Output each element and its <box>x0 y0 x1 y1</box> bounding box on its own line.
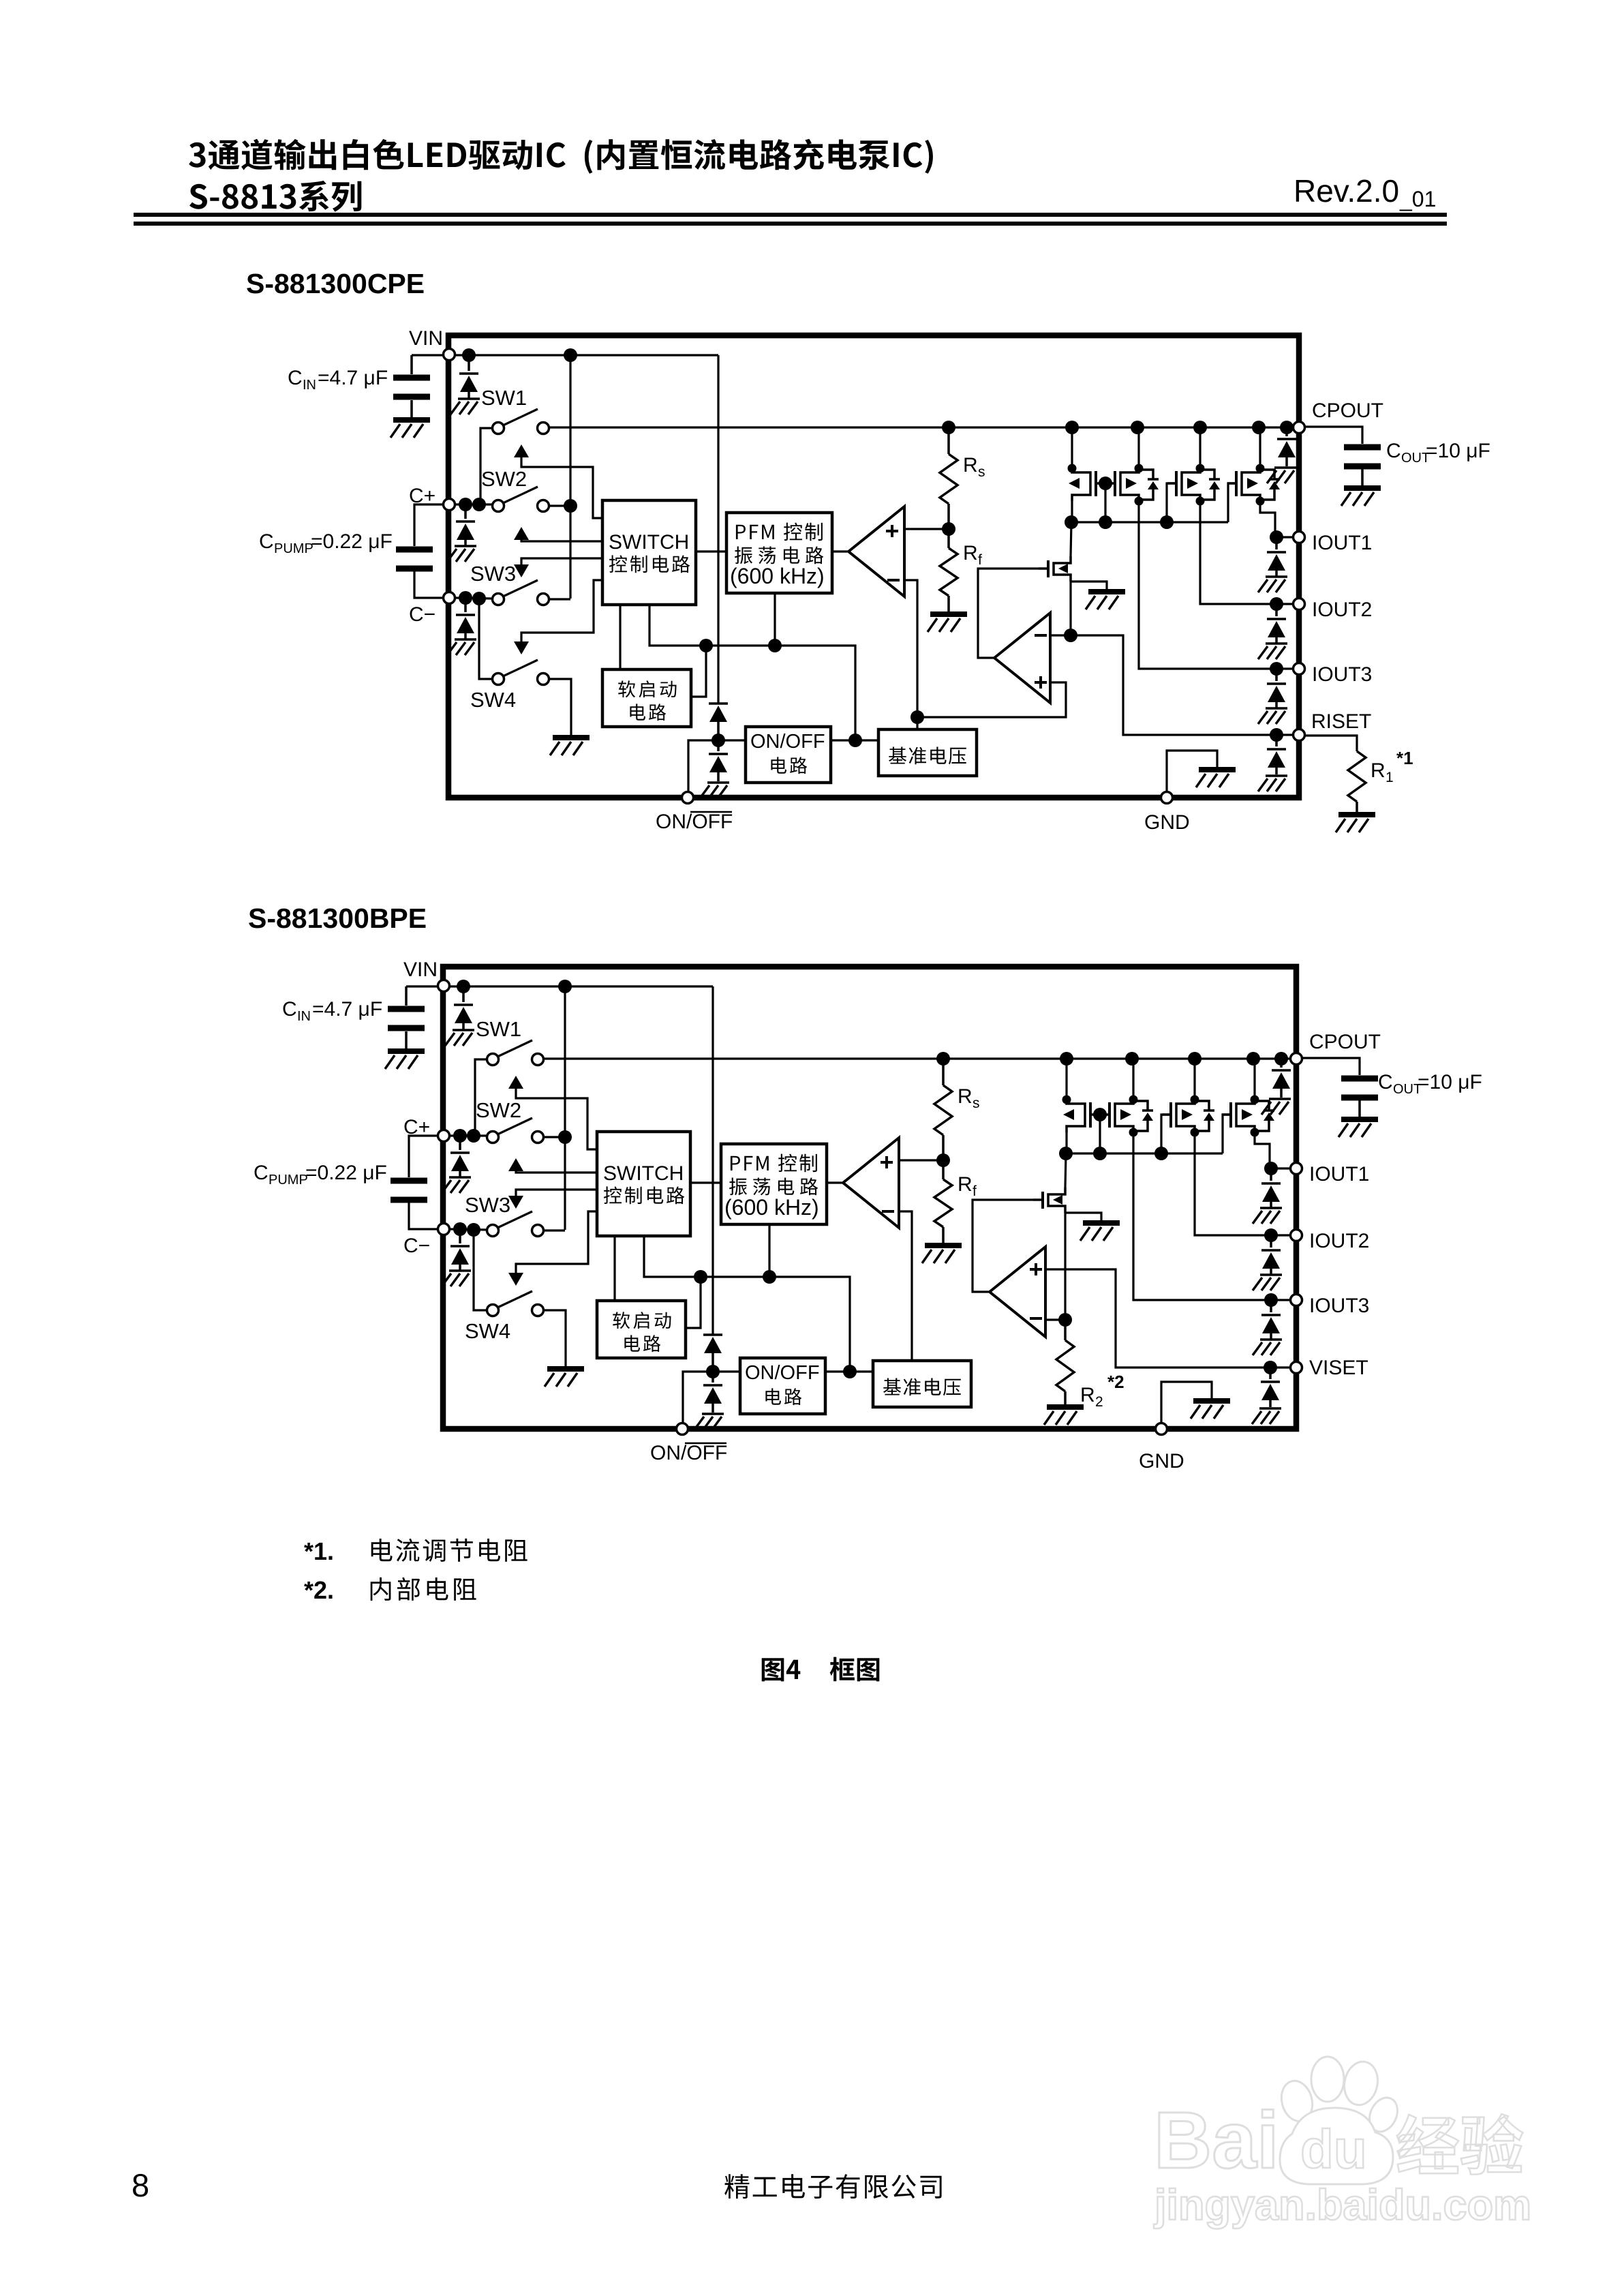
resistor Rs (CPE) <box>947 427 950 454</box>
junction C+ diode (CPE) <box>459 498 472 511</box>
text SWITCH ctrl cjk (BPE) <box>604 1186 684 1204</box>
svg-text:=10 μF: =10 μF <box>1418 1071 1482 1093</box>
op-amp comparator (CPE) <box>848 507 904 596</box>
diode IOUT1 (CPE) <box>1275 537 1278 549</box>
resistor Rf (BPE) <box>942 1160 945 1179</box>
wire ON/OFF to refnode (CPE) <box>831 739 878 741</box>
header rule upper <box>134 213 1447 217</box>
junction ON/OFF node (BPE) <box>706 1365 720 1378</box>
svg-text:*1: *1 <box>1396 748 1413 768</box>
wire RISET stub (CPE) <box>1276 734 1292 736</box>
figure caption <box>762 1658 801 1681</box>
transistor T4 (BPE) <box>1222 1096 1274 1137</box>
svg-text:=0.22 μF: =0.22 μF <box>311 530 393 553</box>
wire CPOUT to COUT (CPE) <box>1306 427 1362 444</box>
svg-text:Bai: Bai <box>1154 2096 1279 2186</box>
wire error output (CPE) <box>978 569 1039 658</box>
svg-text:ON/OFF: ON/OFF <box>656 811 733 833</box>
junction rail T1 (BPE) <box>1060 1052 1073 1066</box>
wire SW4 right leg to ground (CPE) <box>549 679 571 735</box>
ground COUT (CPE) <box>1341 488 1381 506</box>
switch SW4 (CPE) <box>493 674 504 685</box>
svg-text:2: 2 <box>1095 1394 1103 1410</box>
junction C- diode (CPE) <box>459 591 472 605</box>
wire SWITCH to PFM (CPE) <box>696 550 726 552</box>
ground COUT (BPE) <box>1338 1119 1378 1137</box>
control arrow SW1 (CPE) <box>514 444 529 457</box>
wire C- stub (CPE) <box>456 598 493 599</box>
control arrow SW3 (CPE) <box>521 558 602 564</box>
control arrow SW1 (BPE) <box>508 1076 523 1089</box>
ground SW4 (BPE) <box>545 1369 584 1387</box>
ground CIN (CPE) <box>391 420 430 438</box>
ground SW4 (CPE) <box>550 738 590 755</box>
ground R1 (CPE) <box>1336 815 1375 832</box>
transistor current-sink (BPE) <box>1033 1188 1065 1213</box>
wire PFM to comparator (CPE) <box>832 550 848 552</box>
wire VIN column to SW2/SW3 (CPE) <box>569 355 571 599</box>
ground Rf (CPE) <box>928 614 967 632</box>
diode shutdown upper (CPE) <box>709 704 728 722</box>
junction SW2 column (BPE) <box>558 1130 572 1144</box>
junction IOUT2 (CPE) <box>1270 597 1283 611</box>
wire comparator minus input (BPE) <box>899 1211 912 1361</box>
ground IOUT1 diode (BPE) <box>1253 1208 1282 1224</box>
text ON/OFF box l2 (CPE) <box>771 757 807 774</box>
svg-text:f: f <box>978 552 982 568</box>
block ON/OFF circuit (BPE) <box>740 1358 825 1414</box>
svg-text:IOUT2: IOUT2 <box>1309 1230 1369 1252</box>
ground CIN (BPE) <box>385 1051 425 1069</box>
svg-text:R: R <box>1371 759 1386 782</box>
junction sense node (BPE) <box>1058 1313 1072 1327</box>
junction Rs-Rf (CPE) <box>942 522 955 536</box>
ground VIN diode (BPE) <box>445 1030 474 1046</box>
svg-text:ON/OFF: ON/OFF <box>650 1442 727 1464</box>
diode VIN clamp (CPE) <box>468 355 470 371</box>
junction rail T4 (CPE) <box>1252 421 1266 434</box>
diode CPOUT clamp (BPE) <box>1280 1059 1283 1068</box>
wire rail to NMOS (BPE) <box>1065 1153 1066 1188</box>
junction C- diode (BPE) <box>453 1222 467 1236</box>
wire T3 source to IOUT2 (CPE) <box>1200 501 1276 604</box>
block ON/OFF circuit (CPE) <box>746 727 831 783</box>
transistor T3 (CPE) <box>1167 464 1220 506</box>
svg-text:SW3: SW3 <box>470 562 516 586</box>
wire T1 drain (BPE) <box>1065 1059 1067 1100</box>
ground GND hook (BPE) <box>1191 1401 1230 1419</box>
junction gate rail T3 (BPE) <box>1154 1147 1168 1160</box>
svg-text:C−: C− <box>409 603 435 626</box>
svg-text:VISET: VISET <box>1309 1357 1368 1379</box>
wire T3 source to IOUT2 (BPE) <box>1195 1132 1271 1235</box>
block reference voltage (BPE) <box>873 1361 971 1407</box>
pin VIN (CPE) <box>444 349 455 361</box>
wire sense to RISET (CPE) <box>1071 635 1276 735</box>
wire NMOS bulk ground (BPE) <box>1065 1213 1101 1220</box>
junction gate rail T1T2 (BPE) <box>1093 1147 1107 1160</box>
junction rail T3 (CPE) <box>1193 421 1207 434</box>
junction VIN-SW2 column (BPE) <box>558 980 572 993</box>
block PFM oscillator (CPE) <box>726 513 832 593</box>
junction IOUT1 (CPE) <box>1270 530 1283 544</box>
wire error output (BPE) <box>973 1200 1033 1292</box>
wire SWITCH bottom bus (BPE) <box>644 1236 850 1372</box>
wire reference to error-amp plus (CPE) <box>917 682 1066 717</box>
wire NMOS source node (BPE) <box>1064 1213 1066 1320</box>
wire PFM bottom (CPE) <box>774 593 776 646</box>
svg-text:PUMP: PUMP <box>274 541 313 556</box>
svg-text:R: R <box>1080 1384 1095 1406</box>
pin CPOUT (CPE) <box>1294 422 1305 434</box>
wire T1T2 gates (CPE) <box>1096 482 1116 484</box>
diode IOUT3 (BPE) <box>1270 1300 1272 1312</box>
junction rail clamp (BPE) <box>1274 1052 1288 1066</box>
svg-text:C: C <box>254 1162 269 1184</box>
capacitor CIN (CPE) <box>410 355 413 374</box>
svg-text:R: R <box>958 1173 973 1196</box>
wire T4 gate (CPE) <box>1228 483 1236 522</box>
resistor Rf (CPE) <box>947 529 950 548</box>
diode C+ clamp (CPE) <box>464 504 467 519</box>
wire NMOS source node (CPE) <box>1069 581 1071 635</box>
transistor T2 (CPE) <box>1106 464 1159 506</box>
junction Rs top (CPE) <box>942 421 955 434</box>
switch SW2 (BPE) <box>487 1132 499 1143</box>
transistor current-sink (CPE) <box>1039 556 1071 581</box>
junction Rs top (BPE) <box>936 1052 950 1066</box>
wire C+ to CPUMP (CPE) <box>414 504 442 546</box>
junction VISET (BPE) <box>1264 1361 1277 1374</box>
wire node to ON/OFF pin (BPE) <box>683 1372 713 1422</box>
op-amp comparator (BPE) <box>843 1138 899 1228</box>
wire VISET stub (BPE) <box>1270 1366 1289 1368</box>
block reference voltage (CPE) <box>878 729 977 776</box>
block PFM oscillator (BPE) <box>721 1144 827 1224</box>
svg-text:C: C <box>288 367 303 389</box>
wire T1 source (CPE) <box>1071 501 1073 522</box>
svg-text:SW3: SW3 <box>465 1193 510 1217</box>
wire C+ stub (CPE) <box>456 503 493 505</box>
svg-text:Rev.2.0: Rev.2.0 <box>1294 173 1399 209</box>
ground IOUT3 diode (BPE) <box>1253 1340 1282 1355</box>
junction reference node (CPE) <box>911 710 924 724</box>
wire T3 drain (BPE) <box>1193 1059 1195 1100</box>
pin RISET (CPE) <box>1294 729 1305 741</box>
pin GND (BPE) <box>1156 1423 1167 1435</box>
wire IOUT1 stub (BPE) <box>1271 1167 1289 1169</box>
switch SW2 (CPE) <box>493 500 504 512</box>
watermark baidu logo <box>1277 2057 1403 2184</box>
control arrow SW3 (BPE) <box>516 1190 597 1196</box>
capacitor CIN (BPE) <box>405 986 408 1006</box>
svg-text:(600 kHz): (600 kHz) <box>730 564 825 588</box>
pin C+ (CPE) <box>444 499 455 511</box>
wire SWITCH to soft-start (BPE) <box>613 1236 615 1301</box>
text reference voltage (BPE) <box>883 1378 961 1396</box>
wire T3 gate (BPE) <box>1161 1115 1171 1153</box>
svg-text:VIN: VIN <box>403 958 438 981</box>
ground GND hook (CPE) <box>1196 770 1236 787</box>
ground VIN diode (CPE) <box>450 399 480 414</box>
svg-text:f: f <box>973 1183 977 1199</box>
wire node to ON/OFF pin (CPE) <box>688 740 718 791</box>
wire T4 gate (BPE) <box>1223 1115 1231 1153</box>
svg-text:ON/OFF: ON/OFF <box>750 731 825 753</box>
block SWITCH control (CPE) <box>602 500 696 605</box>
wire VIN to CIN (BPE) <box>406 985 437 987</box>
svg-text:IOUT3: IOUT3 <box>1312 663 1372 686</box>
wire SW1 left leg (BPE) <box>475 1059 487 1136</box>
diode RISET (CPE) <box>1275 735 1278 746</box>
svg-text:C−: C− <box>403 1235 430 1257</box>
junction IOUT1 (BPE) <box>1264 1162 1278 1175</box>
svg-text:RISET: RISET <box>1311 710 1371 733</box>
svg-text:*1.: *1. <box>304 1537 334 1565</box>
ground R2 (BPE) <box>1044 1407 1084 1425</box>
ground C- diode (CPE) <box>447 639 476 655</box>
transistor T1 (BPE) <box>1062 1096 1100 1133</box>
junction C+ diode (BPE) <box>453 1129 467 1143</box>
svg-text:SWITCH: SWITCH <box>609 531 689 554</box>
ground Rf (BPE) <box>922 1245 962 1263</box>
capacitor CPUMP (BPE) <box>391 1181 427 1200</box>
wire T2 source to IOUT3 (CPE) <box>1139 501 1276 669</box>
svg-text:CPOUT: CPOUT <box>1312 399 1383 422</box>
control arrow SW2 (CPE) <box>514 527 529 540</box>
svg-text:s: s <box>973 1096 980 1111</box>
text soft start l2 (BPE) <box>624 1335 660 1352</box>
ground IOUT2 diode (CPE) <box>1258 644 1287 659</box>
diode VISET (BPE) <box>1269 1368 1272 1379</box>
svg-text:S-881300CPE: S-881300CPE <box>246 268 425 299</box>
wire SW4 left leg (BPE) <box>474 1230 487 1310</box>
junction rail T4 (BPE) <box>1246 1052 1260 1066</box>
text PFM line2 (BPE) <box>729 1178 818 1196</box>
text reference voltage (CPE) <box>889 747 966 765</box>
svg-text:jingyan.baidu.com: jingyan.baidu.com <box>1154 2181 1531 2229</box>
svg-text:IOUT2: IOUT2 <box>1312 599 1372 621</box>
svg-text:R: R <box>963 454 978 477</box>
svg-text:(600 kHz): (600 kHz) <box>724 1195 819 1220</box>
text soft start l1 (BPE) <box>613 1312 671 1329</box>
wire ON/OFF to refnode (BPE) <box>825 1370 873 1372</box>
wire SW1 left leg (CPE) <box>480 428 492 504</box>
wire VIN rail (CPE) <box>456 354 718 356</box>
pin C- (BPE) <box>438 1224 450 1235</box>
switch SW4 (BPE) <box>487 1305 499 1316</box>
svg-text:CPOUT: CPOUT <box>1309 1031 1381 1053</box>
svg-text:=4.7 μF: =4.7 μF <box>318 367 388 389</box>
control arrow SW2 (BPE) <box>508 1158 523 1171</box>
wire VIN down-column (CPE) <box>717 355 719 704</box>
wire C- to CPUMP (BPE) <box>409 1203 437 1229</box>
ground CPOUT clamp (CPE) <box>1267 468 1296 483</box>
wire IOUT3 stub (BPE) <box>1271 1299 1289 1301</box>
svg-text:*2.: *2. <box>304 1576 334 1604</box>
pin IOUT3 (BPE) <box>1291 1295 1302 1306</box>
pin C+ (BPE) <box>438 1130 450 1142</box>
junction VIN-diode (BPE) <box>457 980 470 993</box>
diode C- clamp (BPE) <box>459 1229 461 1243</box>
svg-text:C: C <box>259 530 274 553</box>
wire SW4 right leg to ground (BPE) <box>544 1310 566 1366</box>
junction IOUT3 (CPE) <box>1270 662 1283 676</box>
junction rail clamp (CPE) <box>1280 421 1294 434</box>
svg-text:s: s <box>978 464 985 480</box>
wire gate rail (BPE) <box>1066 1152 1223 1154</box>
junction VIN-diode (CPE) <box>462 348 476 362</box>
transistor T2 (BPE) <box>1101 1096 1153 1137</box>
pin VIN (BPE) <box>438 980 450 992</box>
ground VISET diode (BPE) <box>1252 1408 1281 1424</box>
wire NMOS bulk ground (CPE) <box>1071 581 1107 589</box>
svg-text:1: 1 <box>1386 770 1394 785</box>
pin GND (CPE) <box>1161 792 1173 804</box>
wire VIN to CIN (CPE) <box>412 354 442 356</box>
wire T1 source (BPE) <box>1065 1132 1067 1153</box>
capacitor COUT (BPE) <box>1341 1078 1378 1098</box>
junction refnode (CPE) <box>848 734 862 747</box>
svg-text:SWITCH: SWITCH <box>603 1162 684 1185</box>
ground IOUT3 diode (CPE) <box>1258 708 1287 724</box>
wire IOUT2 stub (BPE) <box>1271 1234 1289 1236</box>
svg-text:SW4: SW4 <box>465 1319 510 1343</box>
resistor R1 (CPE) <box>1348 751 1366 802</box>
wire IOUT2 stub (CPE) <box>1276 603 1292 605</box>
diode C- clamp (CPE) <box>464 598 467 612</box>
svg-text:_01: _01 <box>1399 187 1436 211</box>
switch SW1 (BPE) <box>487 1054 499 1066</box>
control arrow SW4 (BPE) <box>516 1211 597 1273</box>
ground IOUT1 diode (CPE) <box>1258 577 1287 592</box>
switch SW3 (CPE) <box>493 594 504 605</box>
text SWITCH ctrl cjk (CPE) <box>609 555 690 573</box>
junction IOUT3 (BPE) <box>1264 1293 1278 1307</box>
wire SW1 to CPOUT rail (CPE) <box>549 426 1299 428</box>
svg-text:=4.7 μF: =4.7 μF <box>312 998 382 1021</box>
wire GND hook (BPE) <box>1161 1382 1212 1422</box>
wire GND hook (CPE) <box>1167 751 1217 791</box>
junction C- SW4 (CPE) <box>472 592 486 605</box>
junction PFM bottom (BPE) <box>763 1270 776 1284</box>
pin IOUT2 (BPE) <box>1291 1230 1302 1241</box>
svg-text:ON/OFF: ON/OFF <box>745 1362 820 1384</box>
capacitor CPUMP (CPE) <box>396 549 433 569</box>
wire PFM bottom (BPE) <box>768 1224 770 1277</box>
svg-text:R: R <box>958 1085 973 1108</box>
ground C+ diode (CPE) <box>447 546 476 562</box>
diode VIN clamp (BPE) <box>462 986 465 1002</box>
wire VIN rail (BPE) <box>450 985 713 987</box>
transistor T1 (CPE) <box>1068 464 1105 502</box>
pin IOUT3 (CPE) <box>1294 663 1305 675</box>
diode C+ clamp (BPE) <box>459 1136 461 1150</box>
svg-text:GND: GND <box>1144 811 1190 834</box>
wire SWITCH to soft-start (CPE) <box>619 605 621 669</box>
text ON/OFF box l2 (BPE) <box>765 1388 801 1405</box>
wire SW3 right leg (BPE) <box>544 1229 565 1231</box>
svg-text:IOUT3: IOUT3 <box>1309 1295 1369 1317</box>
wire T4 source to IOUT1 (BPE) <box>1255 1132 1271 1168</box>
wire RISET to R1 (CPE) <box>1306 736 1357 751</box>
pin ON/OFF (BPE) <box>677 1423 688 1435</box>
diode IOUT2 (BPE) <box>1270 1235 1272 1248</box>
wire soft-start hook (BPE) <box>686 1277 701 1328</box>
wire soft-start hook (CPE) <box>691 646 706 697</box>
transistor T4 (CPE) <box>1227 464 1280 506</box>
diode IOUT2 (CPE) <box>1275 604 1278 616</box>
wire rail to NMOS (CPE) <box>1071 522 1071 556</box>
ground shutdown diode (BPE) <box>694 1414 724 1430</box>
wire PFM to comparator (BPE) <box>827 1181 843 1183</box>
diode shutdown upper (BPE) <box>703 1335 722 1353</box>
junction gate rail T1T2 (CPE) <box>1099 515 1112 529</box>
diode shutdown lower (CPE) <box>717 740 720 751</box>
wire T4 drain (BPE) <box>1253 1059 1255 1100</box>
svg-text:VIN: VIN <box>409 327 443 350</box>
wire comparator minus input (CPE) <box>904 580 917 729</box>
switch SW3 (BPE) <box>487 1225 499 1237</box>
header rule lower <box>134 222 1447 226</box>
text soft start l2 (CPE) <box>630 704 666 721</box>
block soft start (CPE) <box>602 669 691 727</box>
wire error minus (BPE) <box>1046 1318 1065 1320</box>
svg-text:SW1: SW1 <box>481 386 527 410</box>
junction refnode (BPE) <box>843 1365 857 1378</box>
ground IOUT2 diode (BPE) <box>1253 1275 1282 1290</box>
svg-text:SW2: SW2 <box>476 1098 521 1122</box>
junction SW2 column (CPE) <box>564 499 577 513</box>
ground shutdown diode (CPE) <box>700 783 729 798</box>
wire node to ON/OFF box (CPE) <box>718 739 746 741</box>
ground NMOS (BPE) <box>1080 1223 1120 1241</box>
wire T1T2 gates (BPE) <box>1090 1113 1111 1115</box>
resistor Rs (BPE) <box>942 1059 945 1085</box>
wire SW2 right leg (CPE) <box>549 504 570 507</box>
svg-text:8: 8 <box>132 2167 149 2203</box>
wire T3 drain (CPE) <box>1199 427 1201 468</box>
junction PFM bottom (CPE) <box>768 639 782 652</box>
svg-text:C: C <box>1378 1071 1393 1093</box>
wire IOUT3 stub (CPE) <box>1276 667 1292 669</box>
svg-text:C: C <box>1386 440 1401 462</box>
op-amp error (CPE) <box>994 613 1050 703</box>
junction IOUT2 (BPE) <box>1264 1228 1278 1242</box>
text PFM line1 (CPE) <box>736 523 823 541</box>
pin IOUT1 (BPE) <box>1291 1163 1302 1175</box>
wire T4 drain (CPE) <box>1259 427 1261 468</box>
wire T4 source to IOUT1 (CPE) <box>1260 501 1276 537</box>
svg-text:IOUT1: IOUT1 <box>1312 532 1372 554</box>
ground CPOUT clamp (BPE) <box>1261 1099 1291 1115</box>
svg-text:=0.22 μF: =0.22 μF <box>305 1162 387 1184</box>
junction gate rail T1 (BPE) <box>1059 1147 1073 1160</box>
svg-text:PUMP: PUMP <box>269 1173 308 1188</box>
switch SW1 (CPE) <box>493 423 504 434</box>
svg-text:du: du <box>1300 2119 1367 2179</box>
wire T3 gate (CPE) <box>1167 483 1176 522</box>
wire VIN down-column (BPE) <box>711 986 714 1335</box>
wire node to ON/OFF box (BPE) <box>713 1370 740 1372</box>
ground C+ diode (BPE) <box>442 1177 471 1193</box>
junction sense node (CPE) <box>1064 629 1077 642</box>
header title line2 <box>189 181 361 212</box>
ground RISET diode (CPE) <box>1258 776 1287 791</box>
wire error plus to VISET (BPE) <box>1046 1269 1270 1368</box>
junction C- SW4 (BPE) <box>467 1223 480 1237</box>
wire C+ stub (BPE) <box>450 1134 487 1136</box>
